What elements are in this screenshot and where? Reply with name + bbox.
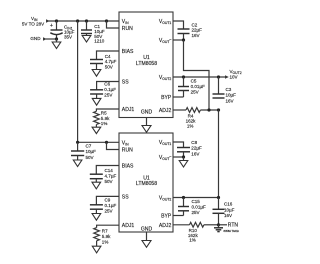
capacitor C8	[177, 140, 202, 157]
capacitor C9	[90, 198, 117, 214]
wire feed to bottom module	[77, 21, 79, 142]
svg-text:25V: 25V	[192, 210, 201, 215]
svg-text:RUN: RUN	[122, 26, 133, 32]
svg-text:22µF: 22µF	[191, 146, 202, 151]
svg-text:+: +	[50, 23, 53, 29]
wire VOUT2 (bottom)	[173, 197, 219, 199]
wire ADJ1 (bottom)	[97, 225, 119, 227]
svg-text:GND: GND	[141, 227, 153, 233]
svg-text:C5: C5	[191, 79, 197, 84]
svg-text:BIAS: BIAS	[122, 49, 134, 55]
ground (under C9)	[92, 214, 101, 221]
wire VIN (bottom)	[78, 141, 119, 143]
ground (under VOUT- bottom)	[179, 157, 188, 167]
wire BYP (top)	[173, 96, 184, 98]
resistor R5	[94, 111, 111, 128]
wire VOUT1 (top)	[173, 21, 184, 29]
capacitor C1	[81, 21, 105, 43]
ground (under C4)	[92, 70, 101, 77]
svg-text:0.01µF: 0.01µF	[192, 204, 206, 209]
svg-text:C2: C2	[192, 22, 198, 27]
svg-text:LTM8058: LTM8058	[136, 61, 157, 67]
wire BIAS (bottom)	[96, 166, 119, 175]
svg-text:0.1µF: 0.1µF	[104, 87, 116, 92]
svg-text:C8: C8	[191, 140, 197, 145]
wire ADJ2 (bottom)	[173, 224, 190, 226]
ground (GND pin, top IC)	[142, 118, 151, 133]
wire RUN branch (top)	[107, 21, 120, 28]
wire VOUT- (bottom)	[173, 156, 184, 158]
svg-text:LTM8058: LTM8058	[136, 181, 157, 187]
capacitor C15	[178, 198, 206, 216]
svg-text:C3: C3	[226, 87, 232, 92]
svg-text:BYP: BYP	[161, 214, 172, 220]
wire BIAS (top)	[97, 51, 120, 60]
svg-text:GND: GND	[141, 110, 153, 116]
capacitor C16	[213, 198, 235, 225]
ground (under R7)	[92, 246, 101, 253]
svg-text:1%: 1%	[187, 123, 194, 128]
resistor R10	[188, 222, 204, 242]
svg-text:RUN: RUN	[122, 148, 133, 154]
svg-text:0.01µF: 0.01µF	[191, 84, 205, 89]
capacitor C4	[90, 54, 117, 70]
capacitor CIN1	[50, 21, 75, 40]
wire ADJ2 to feedback node	[200, 109, 218, 111]
wire RUN branch (bottom)	[107, 142, 120, 149]
svg-text:50V: 50V	[105, 179, 114, 184]
node GND input label	[30, 36, 56, 41]
node VOUT2 output terminal	[225, 69, 242, 80]
svg-text:16V: 16V	[224, 213, 233, 218]
svg-text:BYP: BYP	[161, 95, 172, 101]
svg-text:5V TO 28V: 5V TO 28V	[22, 21, 45, 26]
svg-text:10µF: 10µF	[86, 149, 97, 154]
svg-text:4.7µF: 4.7µF	[105, 173, 117, 178]
resistor R4	[186, 108, 201, 129]
svg-text:10µF: 10µF	[226, 93, 237, 98]
svg-text:C9: C9	[105, 198, 111, 203]
capacitor C2	[178, 22, 203, 40]
svg-text:C15: C15	[192, 199, 201, 204]
node junction dots on VIN rail	[55, 19, 58, 22]
node VIN input label	[22, 16, 50, 27]
ground (under R5)	[92, 127, 101, 133]
ground (under CIN1)	[52, 39, 61, 49]
node RTN terminal	[219, 222, 239, 228]
svg-text:25V: 25V	[191, 90, 200, 95]
svg-text:1%: 1%	[102, 239, 109, 244]
capacitor C6	[90, 82, 116, 99]
svg-text:ADJ2: ADJ2	[159, 223, 172, 229]
wire ADJ1 (top)	[96, 109, 119, 111]
svg-text:GND: GND	[30, 36, 41, 41]
wire VOUT- (top)	[173, 39, 184, 41]
wire SS (bottom)	[96, 196, 119, 204]
IC U1 (top) box	[119, 12, 173, 118]
svg-text:35V: 35V	[64, 35, 73, 40]
svg-text:C14: C14	[105, 168, 114, 173]
svg-text:RTN: RTN	[228, 222, 239, 228]
svg-text:C6: C6	[104, 82, 110, 87]
svg-text:1%: 1%	[101, 121, 108, 126]
svg-text:ADJ2: ADJ2	[159, 108, 172, 114]
ground RTN (signal ground bars)	[214, 225, 240, 233]
svg-text:BIAS: BIAS	[122, 164, 134, 170]
svg-text:16V: 16V	[192, 33, 201, 38]
svg-text:16V: 16V	[226, 98, 235, 103]
svg-text:ADJ1: ADJ1	[122, 107, 135, 113]
svg-text:4.7µF: 4.7µF	[105, 59, 117, 64]
svg-text:5.9k: 5.9k	[102, 234, 111, 239]
svg-text:16V: 16V	[191, 151, 200, 156]
ground (under C14)	[92, 182, 101, 189]
svg-text:1%: 1%	[189, 238, 196, 243]
wire stack feed down to bottom VOUT2	[218, 110, 220, 198]
svg-text:ADJ1: ADJ1	[122, 223, 135, 229]
svg-text:C16: C16	[224, 201, 233, 206]
wire VOUT2 (top)	[173, 76, 226, 78]
wire VIN rail	[49, 20, 120, 22]
capacitor C3	[213, 77, 237, 103]
svg-text:1210: 1210	[94, 38, 105, 43]
IC U1 (bottom) box	[119, 133, 173, 233]
wire VOUT1 (bottom)	[173, 142, 184, 148]
svg-text:C7: C7	[86, 143, 92, 148]
svg-text:SS: SS	[122, 194, 129, 200]
svg-text:10µF: 10µF	[224, 207, 235, 212]
svg-text:8058A TA01b: 8058A TA01b	[224, 229, 240, 233]
wire ADJ2 (top)	[173, 109, 186, 111]
svg-text:25V: 25V	[104, 92, 113, 97]
wire BYP (bottom)	[173, 215, 184, 217]
svg-text:0.1µF: 0.1µF	[105, 203, 117, 208]
ground (under C6)	[92, 98, 101, 105]
ground (under C1)	[82, 36, 91, 43]
capacitor C14	[90, 168, 117, 184]
svg-text:10V: 10V	[230, 75, 239, 80]
svg-text:R7: R7	[102, 229, 108, 234]
svg-text:25V: 25V	[105, 208, 114, 213]
wire VOUT- route down	[184, 40, 210, 110]
resistor R7	[94, 228, 111, 247]
wire R10 to RTN node	[204, 224, 219, 226]
wire SS (top)	[97, 82, 119, 90]
capacitor C7	[71, 142, 96, 160]
svg-text:50V: 50V	[86, 155, 95, 160]
capacitor C5	[178, 77, 205, 97]
svg-text:C4: C4	[105, 54, 111, 59]
svg-text:22µF: 22µF	[192, 28, 203, 33]
svg-text:50V: 50V	[105, 65, 114, 70]
ground (GND pin, bottom IC)	[142, 232, 151, 247]
ground (under C7)	[73, 160, 82, 167]
svg-text:SS: SS	[122, 80, 129, 86]
